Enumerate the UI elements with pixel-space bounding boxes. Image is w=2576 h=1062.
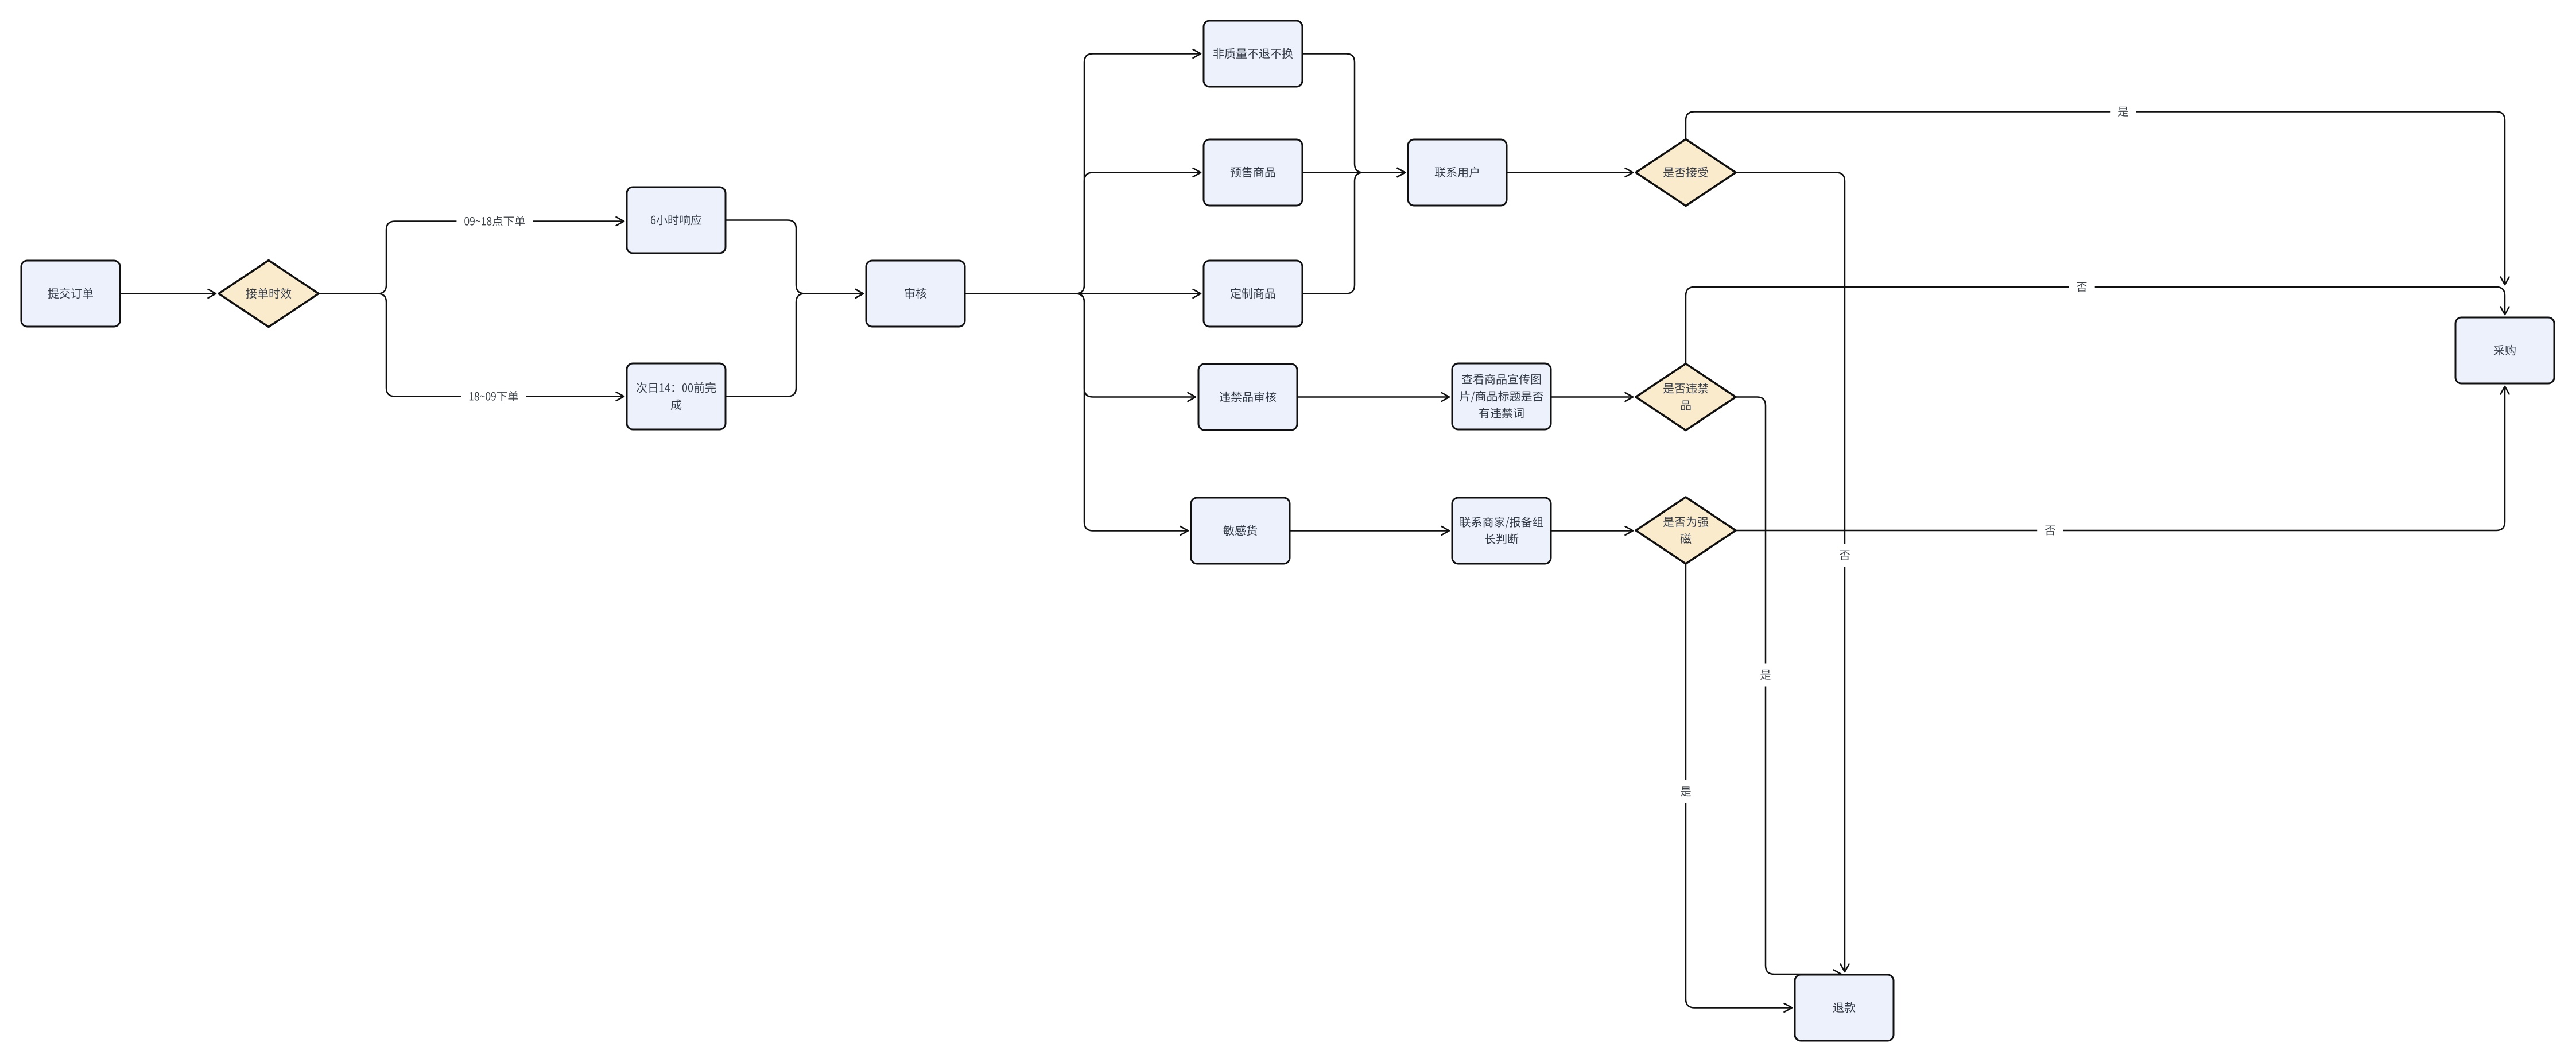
label 否 (是否接受-否) [1832, 544, 1858, 567]
edge 联系用户→是否接受 [1507, 172, 1633, 173]
node 审核 [866, 261, 965, 327]
node 是否为强磁 [1636, 497, 1736, 564]
label 18~09下单 [461, 385, 526, 408]
edge 6小时响应→审核 [726, 220, 863, 294]
edge 审核→违禁品审核 [965, 294, 1196, 397]
edge 审核→预售商品 [965, 173, 1201, 294]
node 非质量不退不换 [1204, 21, 1302, 87]
edge 非质量不退不换→联系用户 [1302, 54, 1405, 173]
label 是 (是否接受-是) [2110, 100, 2136, 123]
edge 敏感货→联系商家 [1290, 530, 1449, 532]
edge 联系商家→是否为强磁 [1551, 530, 1633, 532]
node 查看商品宣传图片/商品标题是否有违禁词 [1452, 363, 1551, 429]
edge 是否违禁品-否→采购 [1686, 287, 2505, 364]
label 否 (是否为强磁-否) [2037, 519, 2063, 542]
edge 是否接受-否→退款 [1736, 173, 1845, 972]
edge 次日14:00前完成→审核 [726, 294, 863, 397]
edge 是否接受-是→采购 [1686, 112, 2505, 285]
edge 是否为强磁-是→退款 [1686, 564, 1792, 1008]
edge 接单时效→6小时响应 (09~18点下单) [319, 222, 624, 294]
node 预售商品 [1204, 139, 1302, 206]
label 是 (是否为强磁-是) [1673, 780, 1699, 803]
node 联系用户 [1408, 139, 1507, 206]
node 提交订单 [21, 261, 120, 327]
edge 违禁品审核→查看商品宣传图片 [1297, 396, 1449, 398]
label 是 (是否违禁品-是) [1752, 664, 1779, 687]
node 6小时响应 [627, 187, 726, 253]
node 是否接受 [1636, 139, 1736, 206]
node 接单时效 [219, 261, 319, 327]
node 联系商家/报备组长判断 [1452, 498, 1551, 564]
edge 审核→敏感货 [965, 294, 1188, 531]
edge 审核→非质量不退不换 [965, 54, 1201, 294]
label 否 (是否违禁品-否) [2069, 276, 2095, 299]
edge 审核→定制商品 [965, 293, 1201, 294]
node 采购 [2455, 317, 2554, 383]
edge 提交订单→接单时效 [120, 293, 216, 294]
edge 查看商品宣传图片→是否违禁品 [1551, 396, 1633, 398]
edge 是否违禁品-是→退款 [1736, 397, 1841, 975]
edge 是否为强磁-否→采购 [1736, 386, 2505, 530]
node 敏感货 [1191, 498, 1290, 564]
node 定制商品 [1204, 261, 1302, 327]
edge 接单时效→次日14:00前完成 (18~09下单) [319, 294, 624, 397]
edge 定制商品→联系用户 [1302, 173, 1405, 294]
label 09~18点下单 [456, 210, 533, 233]
node 次日14:00前完成 [627, 363, 726, 429]
node 退款 [1795, 975, 1894, 1041]
edge 预售商品→联系用户 [1302, 172, 1405, 173]
node 是否违禁品 [1636, 364, 1736, 431]
node 违禁品审核 [1198, 364, 1297, 430]
